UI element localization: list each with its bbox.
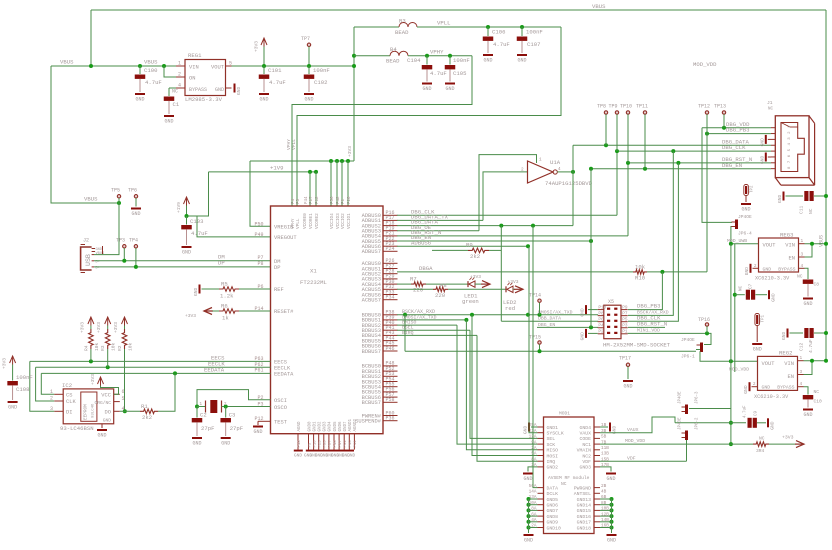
- svg-text:P45: P45: [334, 440, 338, 448]
- svg-text:EECLK: EECLK: [274, 366, 291, 372]
- svg-text:+3V3: +3V3: [113, 322, 119, 333]
- svg-text:NC: NC: [814, 389, 820, 395]
- svg-text:4: 4: [801, 264, 804, 269]
- pin ADBUS6: [362, 241, 398, 250]
- capacitor C107: [517, 25, 543, 53]
- svg-text:P10: P10: [598, 305, 606, 310]
- wire SYSCLK riser: [529, 246, 538, 433]
- svg-text:VPHY: VPHY: [286, 139, 292, 150]
- svg-text:100nF: 100nF: [526, 29, 543, 36]
- svg-text:TP8: TP8: [597, 104, 606, 110]
- svg-text:JP6-2: JP6-2: [696, 417, 700, 430]
- svg-text:GND: GND: [741, 207, 750, 213]
- wire SCK riser: [457, 325, 538, 444]
- svg-text:DP: DP: [274, 265, 280, 271]
- wire DBG_EN to X5: [537, 169, 598, 330]
- svg-text:EN: EN: [788, 374, 794, 380]
- svg-text:C10: C10: [814, 399, 823, 405]
- svg-text:VCCIO1: VCCIO1: [347, 213, 352, 229]
- test point TP16: [698, 317, 710, 334]
- svg-text:C106: C106: [492, 29, 505, 36]
- pin ACBUS3: [362, 274, 398, 283]
- test point TP13: [714, 104, 726, 128]
- svg-text:VPLL: VPLL: [437, 20, 450, 27]
- svg-text:AVSEM RF module: AVSEM RF module: [548, 475, 590, 481]
- svg-text:GND: GND: [215, 87, 224, 93]
- test point TP8: [597, 104, 608, 146]
- svg-text:100nF: 100nF: [16, 374, 33, 381]
- wire VAUX: [600, 417, 675, 433]
- ground C103: [182, 246, 192, 256]
- svg-text:REG2: REG2: [779, 350, 792, 357]
- svg-text:P49: P49: [254, 232, 263, 238]
- svg-text:GND: GND: [762, 385, 771, 391]
- svg-text:NC: NC: [759, 436, 765, 442]
- svg-text:P4: P4: [598, 324, 604, 329]
- svg-text:P2: P2: [598, 330, 604, 335]
- svg-text:5: 5: [122, 396, 125, 402]
- ground C1: [164, 115, 174, 125]
- svg-text:EEPROM: EEPROM: [84, 404, 89, 420]
- svg-text:P9: P9: [622, 305, 628, 310]
- wire REG1 ON: [162, 64, 185, 77]
- svg-text:ORG/NC: ORG/NC: [94, 400, 111, 406]
- svg-text:P44: P44: [305, 196, 309, 204]
- svg-text:MOD_UWB: MOD_UWB: [727, 238, 747, 244]
- pin BCBUS4: [362, 382, 398, 391]
- svg-text:OSCI: OSCI: [274, 398, 287, 404]
- svg-text:BSEL: BSEL: [402, 325, 414, 331]
- resistor R8: [397, 282, 506, 299]
- svg-text:TP12: TP12: [698, 104, 710, 110]
- svg-text:GND4: GND4: [579, 425, 591, 431]
- test point TP10: [620, 104, 632, 163]
- svg-text:BIRQ: BIRQ: [402, 330, 414, 336]
- svg-text:P37: P37: [329, 440, 333, 448]
- svg-text:GND: GND: [771, 293, 777, 302]
- svg-text:green: green: [462, 298, 479, 305]
- svg-text:GND: GND: [304, 97, 313, 103]
- wire VBUS drop to input rail: [90, 10, 92, 66]
- svg-text:XC6210-3.3V: XC6210-3.3V: [754, 394, 789, 400]
- ground module left bus: [524, 534, 534, 544]
- svg-text:C7: C7: [749, 283, 754, 289]
- svg-text:PWRGND: PWRGND: [574, 485, 591, 491]
- power +3V3 EEPROM VCC: [90, 374, 119, 395]
- svg-text:AGND2: AGND2: [354, 418, 358, 431]
- ground C107: [517, 54, 527, 64]
- svg-text:SUSPEND#: SUSPEND#: [355, 419, 382, 425]
- svg-text:TP14: TP14: [529, 293, 541, 299]
- svg-text:GND: GND: [483, 58, 492, 64]
- pin ACBUS0: [362, 258, 398, 267]
- pin BDBUS4: [362, 330, 398, 339]
- svg-text:GND7: GND7: [547, 508, 559, 514]
- wire VBUS right rail: [819, 10, 826, 361]
- ground C106: [483, 54, 493, 64]
- svg-text:JP6-4: JP6-4: [738, 231, 752, 237]
- svg-text:4: 4: [800, 382, 803, 387]
- svg-text:REF: REF: [274, 287, 284, 293]
- IC top pin names: [291, 196, 352, 229]
- test point TP2: [744, 185, 755, 203]
- wire JP6-3: [689, 408, 731, 410]
- svg-text:4.7uF: 4.7uF: [493, 41, 510, 48]
- wire MISO riser: [466, 320, 537, 450]
- svg-text:GND15: GND15: [577, 508, 592, 514]
- svg-text:P4: P4: [292, 198, 296, 204]
- svg-text:P50: P50: [254, 221, 263, 227]
- wire DBG_PB3 to X5: [628, 272, 662, 310]
- svg-text:MIN1_VDD: MIN1_VDD: [637, 328, 660, 334]
- wire DBG_CLK riser to X5: [628, 151, 673, 321]
- svg-text:P20: P20: [348, 196, 352, 204]
- regulator REG3: [753, 232, 805, 282]
- wire VCCIO rail: [250, 161, 354, 226]
- svg-text:VCORE0: VCORE0: [303, 213, 308, 229]
- svg-text:VIN: VIN: [785, 243, 795, 249]
- svg-text:P15: P15: [349, 440, 353, 448]
- IC2 EEPROM 93LC46: [50, 382, 125, 432]
- svg-text:XC6210-3.3V: XC6210-3.3V: [755, 276, 790, 282]
- svg-text:R10: R10: [635, 275, 646, 282]
- wire MOD_VDD riser: [729, 244, 733, 446]
- svg-text:ADBUS7: ADBUS7: [362, 249, 381, 255]
- svg-text:MOD_VDD: MOD_VDD: [625, 438, 645, 444]
- ground REG1 pin2: [234, 84, 243, 96]
- ground module GND1: [523, 423, 538, 435]
- test point TP3: [116, 238, 126, 261]
- pin ADBUS0: [362, 210, 398, 219]
- svg-text:P1: P1: [622, 330, 628, 335]
- capacitor C12: [790, 328, 829, 353]
- svg-text:+3V3: +3V3: [470, 274, 481, 280]
- svg-text:GND17: GND17: [577, 520, 592, 526]
- svg-text:GND: GND: [759, 138, 765, 147]
- wire VCCIO pin 1: [329, 159, 333, 206]
- svg-text:NC: NC: [797, 274, 803, 280]
- svg-text:DBG_PB3: DBG_PB3: [637, 303, 661, 310]
- svg-text:AGND1: AGND1: [349, 418, 353, 431]
- capacitor C106: [483, 25, 510, 53]
- svg-text:10k: 10k: [128, 342, 134, 351]
- wire U1A out: [557, 145, 575, 225]
- svg-text:14A: 14A: [529, 490, 537, 495]
- svg-text:+1V9: +1V9: [176, 202, 182, 213]
- ground TP6: [131, 208, 141, 218]
- svg-text:TP1: TP1: [762, 314, 766, 322]
- ground C3: [221, 437, 231, 447]
- pin ACBUS5: [362, 284, 398, 293]
- svg-text:DI: DI: [66, 409, 72, 415]
- pin EEDATA: [204, 367, 294, 378]
- pin SUSPEND#: [355, 416, 397, 425]
- svg-text:C2: C2: [200, 412, 207, 419]
- test point TP11: [636, 104, 648, 169]
- ground C108: [8, 401, 18, 411]
- svg-text:DBG_EN: DBG_EN: [538, 322, 555, 328]
- wire REG2 EN: [804, 359, 815, 375]
- svg-text:TP4: TP4: [129, 238, 138, 244]
- resistor R10: [633, 263, 707, 281]
- test point TP9: [609, 104, 619, 152]
- svg-text:GND4: GND4: [329, 421, 333, 432]
- svg-text:NC: NC: [808, 208, 814, 214]
- svg-text:ON: ON: [189, 76, 195, 82]
- svg-text:IRQ: IRQ: [547, 459, 556, 465]
- svg-text:P17: P17: [310, 196, 314, 204]
- junction MOD_VDD: [729, 359, 749, 372]
- capacitor C103: [181, 214, 208, 245]
- svg-text:4.7uF: 4.7uF: [145, 79, 162, 86]
- jumper JP6-1: [681, 337, 703, 360]
- svg-text:+3V3: +3V3: [79, 322, 85, 333]
- svg-text:GND7: GND7: [344, 421, 348, 432]
- ground C11: [777, 192, 785, 204]
- svg-text:R9: R9: [466, 242, 473, 249]
- svg-text:2: 2: [753, 382, 756, 387]
- junction VBUS/top: [89, 64, 93, 68]
- svg-text:C108: C108: [16, 386, 29, 393]
- wire MIN1_VDD: [628, 328, 711, 345]
- resistor R7: [397, 275, 468, 293]
- svg-text:C102: C102: [314, 79, 327, 86]
- wire BSCK to X5 label: [637, 310, 669, 316]
- svg-text:IC2: IC2: [62, 382, 72, 389]
- svg-text:C8: C8: [814, 282, 820, 288]
- ground module GND3: [600, 467, 616, 482]
- pin ADBUS1: [362, 215, 398, 224]
- svg-text:BSCK/AX_RXD: BSCK/AX_RXD: [637, 310, 669, 316]
- svg-text:10k: 10k: [111, 342, 117, 351]
- svg-text:GND10: GND10: [547, 525, 562, 531]
- test point TP5: [111, 188, 121, 204]
- svg-text:GND8: GND8: [547, 514, 559, 520]
- svg-text:2: 2: [754, 264, 757, 269]
- wire DATA riser: [533, 226, 538, 488]
- svg-text:USB: USB: [85, 254, 92, 266]
- svg-text:C105: C105: [453, 70, 466, 77]
- pin TEST: [254, 416, 287, 426]
- wire REG3 VIN: [805, 242, 829, 246]
- svg-text:BYPASS: BYPASS: [777, 385, 794, 391]
- svg-text:4.7uF: 4.7uF: [744, 405, 748, 418]
- svg-text:TP5: TP5: [111, 188, 120, 194]
- svg-text:1k: 1k: [222, 314, 229, 321]
- wire DM: [94, 253, 271, 262]
- power +3V3 at C101: [254, 38, 268, 66]
- svg-text:J1: J1: [767, 100, 773, 106]
- svg-text:GND: GND: [347, 454, 355, 459]
- svg-text:MOD_VDD: MOD_VDD: [729, 367, 749, 373]
- wire DBG_CLK: [397, 151, 617, 215]
- pin BDBUS6: [362, 341, 398, 350]
- wire DBG_DATA_TX: [397, 172, 528, 221]
- svg-text:C9: C9: [755, 410, 759, 416]
- svg-text:BMOSI/AX_TXD: BMOSI/AX_TXD: [538, 309, 573, 315]
- wire EECS rail: [30, 359, 271, 411]
- ground IC2: [97, 424, 107, 439]
- capacitor C7: [735, 283, 767, 299]
- capacitor C104: [407, 54, 447, 82]
- svg-text:J2: J2: [83, 238, 89, 244]
- connector X5: [598, 299, 671, 349]
- svg-text:TP16: TP16: [698, 317, 710, 323]
- svg-text:VIN: VIN: [189, 65, 199, 71]
- svg-text:+1V9: +1V9: [270, 164, 283, 171]
- LED2 red: [503, 283, 516, 312]
- wire module GND13-18 bus: [600, 497, 614, 533]
- wire VCCIO pin 3: [340, 159, 344, 206]
- svg-text:C3: C3: [229, 412, 236, 419]
- svg-text:GND: GND: [8, 405, 17, 411]
- wire +1V9 rail: [187, 164, 317, 216]
- svg-text:TP17: TP17: [619, 355, 631, 361]
- svg-text:TP3: TP3: [116, 238, 125, 244]
- svg-text:TEST: TEST: [274, 420, 288, 426]
- wire IRQ riser: [477, 335, 538, 461]
- wire EEDATA rail: [41, 371, 270, 394]
- wire DBG_VDD: [702, 121, 771, 223]
- connector J2 USB: [81, 238, 105, 273]
- svg-text:P8: P8: [598, 311, 604, 316]
- svg-text:ACBUS7: ACBUS7: [362, 298, 381, 304]
- test point TP7: [301, 36, 311, 66]
- svg-text:GND: GND: [523, 425, 529, 434]
- svg-text:P10: P10: [313, 440, 317, 448]
- svg-text:U1A: U1A: [550, 159, 561, 166]
- regulator REG2: [752, 350, 804, 400]
- svg-text:GND: GND: [763, 266, 772, 272]
- pin VREGIN: [254, 221, 293, 230]
- svg-text:NC2: NC2: [582, 453, 591, 459]
- svg-text:GND6: GND6: [339, 421, 343, 432]
- svg-text:GND: GND: [236, 86, 242, 95]
- pin BDBUS2: [362, 320, 398, 329]
- svg-text:MISO: MISO: [547, 448, 559, 454]
- svg-text:JP4OE: JP4OE: [681, 337, 695, 343]
- junction R2/D0: [123, 409, 127, 413]
- svg-text:DBG_RST_N: DBG_RST_N: [637, 321, 667, 328]
- test point TP17: [619, 355, 631, 379]
- svg-text:NC: NC: [739, 285, 744, 291]
- svg-text:OSCO: OSCO: [274, 405, 287, 411]
- svg-text:GND6: GND6: [547, 503, 559, 509]
- svg-text:GND13: GND13: [577, 497, 592, 503]
- svg-text:GND: GND: [743, 385, 749, 394]
- svg-text:27pF: 27pF: [201, 425, 214, 432]
- svg-text:27pF: 27pF: [230, 425, 243, 432]
- jumper JP6-4: [732, 214, 753, 237]
- svg-text:VBUS: VBUS: [819, 235, 825, 247]
- svg-text:P12: P12: [316, 196, 320, 204]
- ground X5 P2: [580, 329, 598, 341]
- svg-text:VPHY: VPHY: [430, 48, 444, 55]
- ground C102: [304, 93, 314, 103]
- svg-text:C100: C100: [144, 67, 158, 74]
- ground C7: [768, 290, 777, 302]
- svg-text:ADBUS6: ADBUS6: [411, 239, 431, 246]
- wire DBG_DATA to J1: [573, 138, 771, 147]
- svg-text:1: 1: [800, 356, 803, 361]
- svg-text:3: 3: [50, 406, 53, 412]
- resistor R11 NC: [753, 436, 796, 455]
- svg-text:VCCIO4: VCCIO4: [330, 213, 335, 229]
- svg-text:6: 6: [122, 389, 125, 395]
- pin BCBUS3: [362, 376, 398, 385]
- wire MOD_VDD row: [600, 438, 753, 444]
- wire REG2 VIN: [804, 359, 829, 363]
- wire VCORE pins: [308, 170, 318, 206]
- svg-text:VOUT: VOUT: [211, 65, 225, 71]
- ground C100: [135, 93, 145, 103]
- svg-text:10k: 10k: [94, 342, 100, 351]
- wire REG3 EN: [805, 242, 815, 257]
- svg-text:BEAD: BEAD: [386, 57, 400, 64]
- pin DM label: [274, 259, 280, 265]
- svg-text:TP11: TP11: [636, 104, 648, 110]
- svg-text:+3V3: +3V3: [96, 322, 102, 333]
- pin BDBUS0: [362, 310, 398, 319]
- wire VCCIO pin 4: [346, 159, 350, 206]
- svg-text:VOUT: VOUT: [763, 243, 777, 249]
- wire DBG_CLK to J1: [615, 144, 771, 153]
- ground C104: [422, 83, 432, 93]
- svg-text:RESET#: RESET#: [274, 309, 294, 315]
- svg-text:DBB_DATA: DBB_DATA: [538, 316, 561, 322]
- svg-text:TP15: TP15: [529, 335, 541, 341]
- svg-text:VCORE2: VCORE2: [315, 213, 320, 229]
- LED1 green: [462, 278, 479, 306]
- capacitor C108: [7, 374, 32, 400]
- wire ADBUS6: [397, 239, 530, 248]
- svg-text:GND14: GND14: [577, 503, 592, 509]
- svg-text:NC: NC: [172, 89, 178, 95]
- pin BDBUS3: [362, 325, 398, 334]
- svg-text:P56: P56: [331, 196, 335, 204]
- svg-text:1: 1: [801, 239, 804, 244]
- wire DBG_DATA row: [397, 219, 573, 228]
- jumper JP6-2: [679, 417, 700, 440]
- wire DBG_RST_N riser to X5: [628, 163, 678, 328]
- svg-text:VCORE1: VCORE1: [309, 213, 314, 229]
- svg-text:P6: P6: [598, 318, 604, 323]
- svg-text:2: 2: [50, 396, 53, 402]
- svg-text:X1: X1: [310, 268, 317, 275]
- svg-text:VMAIN: VMAIN: [577, 448, 592, 454]
- svg-text:DMOSI/AX_TXD: DMOSI/AX_TXD: [402, 314, 437, 320]
- resistor R3 pullup: [96, 317, 117, 367]
- wire DBG_RST_N row: [397, 163, 628, 236]
- pin DP label: [274, 265, 280, 271]
- svg-text:P7: P7: [622, 311, 628, 316]
- svg-text:SEL: SEL: [547, 436, 556, 442]
- capacitor C1: [164, 88, 185, 114]
- svg-text:3: 3: [800, 370, 803, 375]
- svg-text:REG1: REG1: [188, 52, 202, 59]
- ferrite bead B4: [354, 46, 472, 64]
- svg-text:2k2: 2k2: [142, 414, 152, 421]
- svg-text:+3V3: +3V3: [2, 358, 8, 369]
- wire VREGOUT: [197, 216, 271, 237]
- svg-text:DBG_EN: DBG_EN: [722, 162, 742, 169]
- wire BDBUS4: [397, 330, 477, 336]
- pin BDBUS1: [362, 315, 398, 324]
- wire DBG_PB3: [705, 127, 771, 272]
- IC bottom ground pins: [294, 418, 358, 458]
- pin ACBUS6: [362, 289, 398, 298]
- pin OSCO: [257, 402, 286, 411]
